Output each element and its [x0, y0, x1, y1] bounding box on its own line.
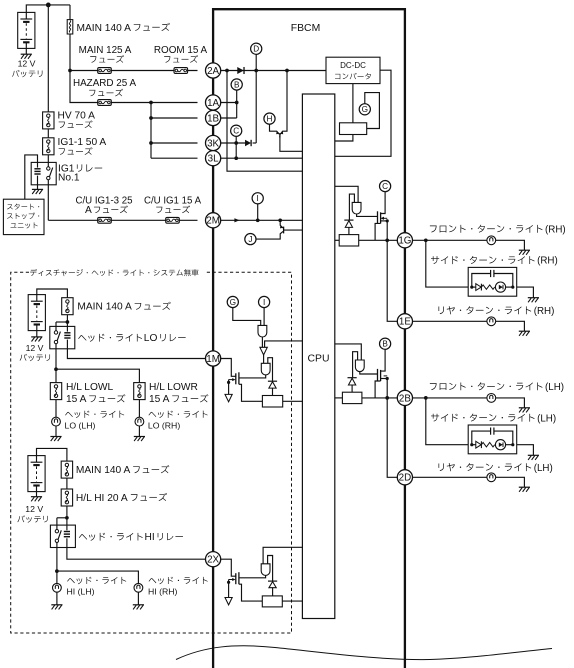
svg-text:H/L LOWL: H/L LOWL — [66, 382, 114, 393]
svg-text:MAIN 140 A: MAIN 140 A — [77, 302, 132, 313]
wire MOSFET to resistor (2X) — [239, 584, 262, 601]
wire 2B node to 2D node (internal) — [387, 398, 397, 477]
wire CPU feed to arrow (1M) — [265, 341, 303, 347]
wavy continuation line — [176, 646, 552, 660]
svg-text:HI (RH): HI (RH) — [148, 587, 178, 597]
label front turn light RH — [430, 225, 543, 233]
junction side box input — [470, 286, 473, 289]
MOSFET Q2X — [238, 572, 240, 584]
diode on 2A line — [237, 67, 244, 74]
label discharge headlight system — [30, 269, 198, 276]
label headlight HI LH — [67, 577, 126, 584]
wire CPU feed to driver (C) — [335, 186, 358, 202]
svg-text:(RH): (RH) — [545, 224, 566, 235]
wire driver2 to MOSFET gate (1M) — [239, 375, 266, 378]
fuse H/L LOWR 15A (vertical) — [134, 383, 145, 400]
wire resistor to node (B) — [362, 397, 397, 399]
ground rear turn RH — [519, 331, 530, 336]
junction B-1A — [235, 101, 239, 105]
wire output line via resistor (C) — [335, 239, 339, 241]
svg-text:3K: 3K — [207, 138, 219, 149]
svg-text:ROOM 15 A: ROOM 15 A — [154, 45, 208, 56]
wire source tap to MOSFET (B) — [375, 381, 381, 398]
junction I-2M — [256, 218, 260, 222]
label rear turn light RH — [438, 306, 531, 314]
resistor RB — [342, 392, 362, 403]
junction 1A line — [149, 101, 153, 105]
ground battery B2 — [36, 331, 38, 337]
relay headlight LO — [50, 326, 75, 348]
svg-text:IG1-1 50 A: IG1-1 50 A — [58, 137, 107, 148]
svg-text:H/L HI 20 A: H/L HI 20 A — [76, 493, 128, 504]
fuse C/U IG1 15A (horizontal) — [166, 217, 180, 223]
resistor RC — [339, 235, 359, 246]
bulb rear turn light RH — [487, 317, 496, 326]
ground headlight HI RH — [137, 592, 139, 605]
wire driver1 out — [261, 337, 263, 347]
junction side branch RH — [424, 238, 428, 242]
fuse ROOM 15A (horizontal) — [174, 68, 188, 74]
node 1B — [206, 110, 221, 125]
node 2B — [397, 390, 412, 405]
ground side turn RH — [528, 298, 539, 303]
wire 2X to MOSFET drain — [221, 559, 236, 576]
bulb headlight LO RH — [138, 400, 140, 418]
resistor zigzag (side) — [481, 285, 494, 289]
fuse HV 70A (vertical) — [43, 112, 54, 129]
resistor zigzag (side) — [481, 443, 494, 447]
svg-text:DC-DC: DC-DC — [340, 61, 366, 70]
svg-text:MAIN 140 A: MAIN 140 A — [77, 23, 132, 34]
wire LO relay switch to lamp fuses — [55, 349, 57, 383]
signal merge J + 2M into CPU — [280, 220, 283, 228]
wire 1G node to 1E node (internal) — [387, 240, 397, 321]
wire resistor to CPU (1M) — [283, 400, 303, 402]
junction HI lamp split — [55, 569, 59, 573]
junction output (B) — [385, 396, 389, 400]
driver stage (B) — [355, 360, 364, 372]
connector circle C — [380, 181, 391, 192]
svg-text:HV 70 A: HV 70 A — [58, 111, 96, 122]
junction 2A supply branch — [225, 69, 229, 73]
svg-text:LO (RH): LO (RH) — [148, 420, 180, 430]
wire rear turn light RH — [413, 320, 488, 322]
node 2A — [206, 63, 221, 78]
connector circle D — [251, 43, 262, 54]
wire 2A internal line — [221, 70, 326, 72]
relay headlight HI — [50, 525, 75, 547]
battery B1 12V — [18, 12, 35, 48]
junction side box input — [470, 443, 473, 446]
svg-text:3L: 3L — [208, 154, 219, 165]
wire IG1 relay switch down to 2M line — [47, 185, 49, 221]
driver stage 1 (1M) — [258, 325, 267, 337]
label headlight HI relay — [79, 533, 143, 541]
ground rear turn LH — [519, 487, 530, 492]
capacitor branch (side) — [472, 431, 491, 445]
bulb front turn light LH — [487, 394, 496, 403]
label headlight LO RH — [149, 411, 208, 418]
node 1A — [206, 95, 221, 110]
diode D2X (zener to driver) — [268, 581, 277, 588]
signal merge H + 2A into CPU — [270, 124, 280, 134]
diode (side) — [472, 286, 476, 288]
svg-text:I: I — [263, 298, 265, 307]
diode D1M (zener to driver2) — [268, 381, 277, 388]
wire HAZARD feed — [70, 71, 198, 103]
LED (side) — [495, 440, 505, 450]
CPU box — [302, 94, 334, 619]
wire arrow to driver2 — [263, 355, 265, 363]
wire HI relay coil to 2X — [67, 548, 206, 560]
svg-text:2B: 2B — [399, 393, 411, 404]
svg-text:HI: HI — [145, 532, 155, 543]
fuse H/L HI 20A (vertical) — [61, 489, 72, 506]
ground side turn LH — [528, 455, 539, 460]
svg-text:FBCM: FBCM — [291, 23, 320, 34]
side turn light assembly box — [468, 425, 517, 454]
MOSFET Q1M — [238, 372, 240, 384]
wire driver to MOSFET gate (B) — [360, 372, 378, 374]
wire G to driver1 — [233, 308, 261, 326]
wire MOSFET source to output (B) — [381, 378, 388, 380]
junction main feed — [68, 69, 72, 73]
fuse H/L LOWL 15A (vertical) — [50, 383, 61, 400]
junction LO lamp split — [54, 367, 58, 371]
hook diode to driver input (B) — [353, 352, 358, 378]
fuse HAZARD 25A (horizontal) — [98, 100, 112, 106]
wire output line via resistor (B) — [335, 397, 343, 399]
wire resistor to CPU (2X) — [282, 600, 302, 602]
junction output (C) — [385, 238, 389, 242]
diode (side) — [472, 444, 476, 446]
wire to 3L — [151, 157, 198, 159]
wire source to signal ground (1M) — [228, 380, 230, 395]
diode 3K to D line — [221, 142, 246, 144]
svg-text:LO (LH): LO (LH) — [65, 420, 96, 430]
fuse MAIN 140A LO (vertical) — [62, 298, 73, 315]
svg-text:CPU: CPU — [308, 354, 330, 365]
wire 2A feed line — [70, 70, 198, 72]
svg-text:15 A: 15 A — [149, 394, 170, 405]
wire MOSFET to resistor (1M) — [239, 384, 263, 401]
junction D line on 2A — [254, 69, 258, 73]
connector circle I (1M driver) — [259, 296, 270, 307]
svg-text:2X: 2X — [207, 555, 219, 566]
relay IG1 No.1 — [31, 162, 56, 184]
bulb headlight HI RH — [134, 583, 143, 592]
wire source to signal ground (2X) — [228, 580, 230, 598]
wire MOSFET source to output (C) — [381, 220, 388, 222]
ground front turn RH — [519, 250, 530, 255]
junction 3K line — [149, 141, 153, 145]
dashed box: no discharge headlight system — [11, 272, 292, 633]
connector circle G (DC-DC) — [359, 104, 370, 115]
wire side box to ground LH — [517, 445, 534, 456]
svg-text:No.1: No.1 — [58, 173, 80, 184]
svg-text:1M: 1M — [206, 354, 220, 365]
wire to 3K — [151, 142, 198, 144]
junction source (1M) — [227, 381, 230, 384]
svg-text:1G: 1G — [398, 236, 411, 247]
wire 1A internal — [221, 102, 237, 104]
wire side box to ground RH — [517, 287, 534, 298]
signal ground arrow (1M) — [225, 394, 232, 401]
svg-text:C: C — [233, 127, 239, 136]
svg-text:A: A — [85, 205, 92, 216]
wire 1B internal — [221, 117, 237, 119]
ground headlight LO LH — [55, 426, 57, 437]
junction C-3L — [234, 156, 238, 160]
junction side box output — [511, 443, 514, 446]
driver stage 2 (1M) — [261, 363, 270, 375]
junction HI relay feed — [65, 516, 69, 520]
resistor R-G (DC-DC sense) — [340, 123, 367, 135]
ground IG1 relay coil — [37, 185, 39, 190]
fuse MAIN 125A (horizontal) — [98, 68, 112, 74]
wire bulb to ground rear LH — [496, 477, 525, 487]
junction LO relay feed — [66, 320, 70, 324]
svg-text:C/U IG1 15 A: C/U IG1 15 A — [144, 195, 202, 206]
wire battery B3 to fuse — [37, 448, 67, 461]
wire 2M feed line — [48, 219, 197, 221]
fuse MAIN 140A HI (vertical) — [61, 461, 72, 478]
connector circle C (3K/3L) — [231, 125, 242, 136]
node 1E — [397, 314, 412, 329]
hook diode to driver input (2X) — [268, 556, 273, 581]
svg-text:1A: 1A — [207, 98, 219, 109]
svg-text:(RH): (RH) — [537, 256, 558, 267]
wire 1A junction down to 1B 3K 3L — [150, 103, 152, 159]
node 2M — [206, 213, 221, 228]
FBCM module box — [213, 9, 405, 668]
connector circle G (1M driver) — [227, 296, 238, 307]
ground headlight LO RH — [138, 426, 140, 437]
connector circle B (1A/1B) — [231, 79, 242, 90]
wire C to 3K and 3L — [235, 136, 237, 158]
svg-text:12 V: 12 V — [25, 504, 43, 514]
junction side branch LH — [424, 396, 428, 400]
signal arrow down (1M) — [260, 347, 267, 355]
ground headlight HI LH — [56, 592, 58, 605]
junction C-3K — [234, 141, 238, 145]
junction side box output — [511, 286, 514, 289]
resistor R2X — [262, 596, 282, 607]
wire 1M to MOSFET drain — [221, 359, 236, 377]
wire to HI RH lamp — [57, 571, 138, 583]
node 3K — [206, 135, 221, 150]
bulb headlight HI LH — [53, 583, 62, 592]
start-stop unit box — [3, 199, 44, 234]
diode Dz (B) — [348, 378, 357, 385]
wire CPU feed to driver (2X) — [263, 547, 302, 564]
connector circle B — [380, 338, 391, 349]
side turn light assembly box — [468, 267, 517, 296]
wire LO relay switch feed — [56, 321, 67, 323]
wire source tap to MOSFET (C) — [375, 223, 381, 240]
wire start-stop unit to IG1 relay coil — [25, 155, 38, 199]
wire front turn light RH — [413, 239, 488, 241]
svg-text:1E: 1E — [399, 317, 411, 328]
junction top rail — [46, 3, 51, 8]
diode Dz (C) — [344, 220, 353, 227]
wire MOSFET drain to connector C — [381, 192, 386, 214]
wire bulb to ground rear RH — [496, 321, 525, 331]
connector circle I (2M) — [252, 193, 263, 204]
svg-text:G: G — [362, 105, 368, 114]
wire to H/L HI fuse — [66, 478, 68, 489]
svg-text:HI (LH): HI (LH) — [67, 587, 95, 597]
junction 1B line — [149, 116, 153, 120]
wire junction to HV fuse column — [47, 5, 49, 112]
wire branch to side box RH — [426, 240, 468, 287]
wire fuse to HI relay — [66, 506, 68, 525]
label headlight HI RH — [149, 577, 208, 584]
MOSFET QB — [377, 369, 379, 381]
wire bulb to ground RH — [496, 240, 525, 250]
svg-text:B: B — [382, 340, 388, 349]
wire 2M internal to CPU — [221, 219, 303, 221]
wire IG1-1 to relay — [47, 155, 49, 163]
node 1M — [206, 351, 221, 366]
bulb rear turn light LH — [487, 473, 496, 482]
svg-text:2M: 2M — [206, 216, 220, 227]
junction source (2X) — [227, 581, 230, 584]
svg-text:H/L LOWR: H/L LOWR — [149, 382, 198, 393]
driver stage (C) — [352, 202, 361, 214]
wire driver to MOSFET gate (C) — [357, 214, 378, 216]
wire DC-DC bottom to resistor — [352, 84, 354, 123]
wire fuse to LO relay — [66, 315, 68, 327]
label headlight LO relay — [78, 334, 142, 342]
junction J branch — [278, 218, 282, 222]
node 2X — [206, 552, 221, 567]
MOSFET body arrow (C) — [384, 217, 388, 219]
svg-text:2D: 2D — [399, 473, 412, 484]
LED (side) — [495, 282, 505, 292]
svg-text:D: D — [253, 45, 259, 54]
MOSFET body arrow (B) — [384, 375, 388, 377]
svg-text:LO: LO — [144, 333, 158, 344]
svg-text:1B: 1B — [207, 113, 219, 124]
wire 3L internal to CPU — [221, 157, 303, 159]
node 2D — [397, 470, 412, 485]
label rear turn light LH — [438, 463, 531, 471]
wire B to 1A and 1B — [236, 90, 238, 118]
wire I to driver1 — [263, 308, 265, 326]
ground battery B3 — [36, 492, 38, 497]
node 1G — [397, 233, 412, 248]
connector circle J — [245, 234, 256, 245]
svg-text:(LH): (LH) — [537, 413, 556, 424]
wire HI relay switch to lamps — [56, 548, 58, 584]
svg-text:(RH): (RH) — [534, 306, 555, 317]
node 3L — [206, 151, 221, 166]
hook diode to driver2 input — [268, 358, 273, 381]
MOSFET body arrow (1M) — [229, 379, 233, 381]
bulb headlight LO LH — [55, 400, 57, 418]
ground battery B1 — [25, 48, 27, 54]
resistor R1M — [262, 396, 282, 408]
battery B3 12V — [28, 456, 45, 492]
signal ground arrow (2X) — [225, 598, 232, 605]
wire HV to IG1-1 — [47, 129, 49, 138]
wire to 1B — [151, 117, 198, 119]
svg-text:2A: 2A — [207, 66, 219, 77]
wire DC-DC out right to CPU — [335, 70, 391, 156]
wire 2A supply down to CPU — [227, 71, 302, 172]
svg-text:(LH): (LH) — [534, 463, 553, 474]
wire front turn light LH — [413, 397, 488, 399]
arrow on 2M line — [234, 218, 239, 222]
bulb front turn light RH — [487, 236, 496, 245]
svg-text:B: B — [234, 80, 240, 89]
label side turn light RH — [431, 256, 535, 264]
wire battery B1 to top rail — [26, 5, 70, 12]
svg-text:MAIN 140 A: MAIN 140 A — [76, 465, 131, 476]
wire driver to MOSFET gate (2X) — [239, 575, 266, 577]
label front turn light LH — [430, 382, 543, 390]
wire MOSFET drain to connector B — [381, 349, 386, 371]
svg-text:G: G — [230, 298, 236, 307]
wire CPU feed to driver (B) — [335, 344, 362, 360]
battery B2 12V — [28, 295, 45, 331]
label headlight LO LH — [65, 411, 124, 418]
wire branch to side box LH — [426, 398, 468, 445]
label side turn light LH — [431, 414, 535, 422]
wire resistor to node (C) — [359, 239, 398, 241]
ground front turn LH — [519, 408, 530, 413]
wire I down to 2M line — [257, 204, 259, 220]
wire HI relay switch feed — [57, 517, 67, 519]
svg-text:J: J — [248, 235, 252, 244]
svg-text:H: H — [267, 115, 273, 124]
svg-text:15 A: 15 A — [66, 394, 87, 405]
svg-text:HAZARD 25 A: HAZARD 25 A — [73, 78, 137, 89]
junction H branch on 2A — [285, 69, 289, 73]
fuse MAIN 140A (vertical, narrow) — [69, 5, 71, 20]
svg-text:C: C — [382, 182, 388, 191]
MOSFET QC — [377, 211, 379, 223]
wire to LOWR fuse — [56, 369, 139, 382]
wire LO relay coil to 1M — [67, 349, 205, 359]
svg-text:12 V: 12 V — [18, 59, 36, 69]
MOSFET body arrow (2X) — [229, 579, 233, 581]
connector circle H — [264, 113, 275, 124]
svg-text:(LH): (LH) — [545, 382, 564, 393]
fuse C/U IG1-3 25A (horizontal) — [98, 217, 112, 223]
capacitor branch (side) — [472, 274, 491, 288]
svg-text:MAIN 125 A: MAIN 125 A — [79, 45, 132, 56]
wire D vertical — [255, 54, 257, 143]
svg-text:I: I — [257, 194, 259, 203]
svg-text:12 V: 12 V — [26, 343, 44, 353]
wire resistor to CPU — [335, 135, 353, 142]
DC-DC converter box — [326, 57, 380, 83]
hook diode to driver input (C) — [349, 194, 354, 220]
driver stage (2X) — [261, 564, 270, 576]
fuse IG1-1 50A (vertical) — [43, 138, 54, 155]
wire bulb to ground LH — [496, 398, 525, 408]
wire G hook to resistor — [365, 93, 380, 129]
wire rear turn light LH — [413, 476, 488, 478]
wire battery B2 to fuse — [37, 289, 68, 298]
